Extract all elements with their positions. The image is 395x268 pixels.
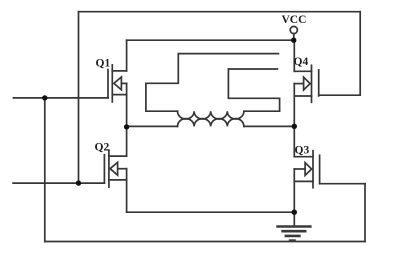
svg-text:Q2: Q2 xyxy=(95,142,110,154)
svg-text:Q4: Q4 xyxy=(294,56,309,68)
svg-text:Q1: Q1 xyxy=(96,58,111,70)
svg-text:Q3: Q3 xyxy=(295,145,310,157)
svg-text:VCC: VCC xyxy=(282,14,307,26)
